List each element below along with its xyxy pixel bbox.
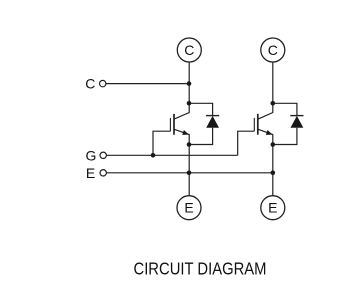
svg-text:E: E (86, 165, 95, 181)
svg-text:C: C (268, 42, 278, 58)
svg-text:E: E (184, 200, 193, 216)
svg-text:CIRCUIT DIAGRAM: CIRCUIT DIAGRAM (134, 259, 267, 279)
svg-text:C: C (85, 76, 95, 92)
svg-text:C: C (184, 42, 194, 58)
svg-text:G: G (86, 147, 97, 163)
svg-text:E: E (268, 200, 277, 216)
